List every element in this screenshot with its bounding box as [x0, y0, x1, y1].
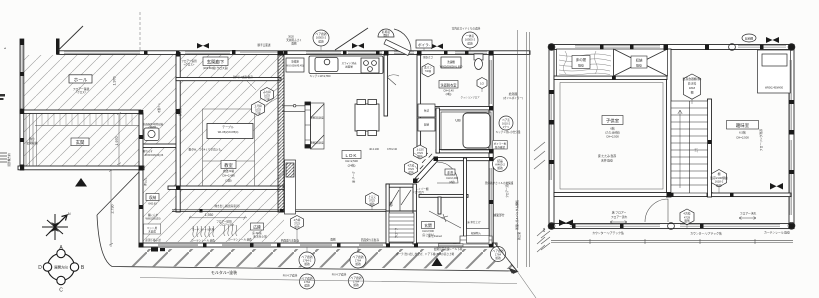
window thin double-lines on walls [21, 45, 492, 246]
svg-text:脱衣カゴ: 脱衣カゴ [423, 55, 433, 59]
LDK label [342, 151, 361, 168]
classroom east thick wall [278, 54, 284, 212]
svg-text:1,970: 1,970 [115, 137, 119, 146]
svg-text:1,930: 1,930 [205, 213, 214, 217]
svg-text:上と杉: 上と杉 [416, 148, 424, 152]
genkan step platform [460, 236, 492, 244]
compass [43, 249, 78, 284]
LDK / washroom wall [384, 54, 388, 116]
svg-text:玄関: 玄関 [76, 139, 85, 146]
svg-text:CH=2,40: CH=2,40 [443, 89, 454, 93]
svg-text:3020: 3020 [288, 35, 294, 39]
svg-text:CH=2,500: CH=2,500 [606, 135, 619, 139]
svg-text:面側: 面側 [330, 238, 336, 242]
svg-text:0723: 0723 [408, 167, 414, 171]
svg-text:洗パン: 洗パン [424, 66, 432, 70]
svg-text:押入れ: 押入れ [144, 178, 148, 186]
svg-text:カウンター:リアテック貼: カウンター:リアテック貼 [690, 231, 722, 235]
svg-text:境界線方向: 境界線方向 [7, 153, 11, 166]
svg-text:ドア?引戸: ドア?引戸 [412, 191, 424, 195]
svg-text:床:チーク: 床:チーク [352, 171, 356, 183]
svg-text:面材: 面材 [383, 34, 389, 38]
svg-text:(2段): (2段) [225, 179, 231, 183]
svg-text:既存食器棚(移): 既存食器棚(移) [683, 77, 702, 81]
joint circles [548, 44, 795, 230]
svg-text:CH=2,500: CH=2,500 [736, 135, 749, 139]
svg-text:ROW:D45(16),66: ROW:D45(16),66 [145, 154, 164, 157]
svg-text:玄関引戸高速レール下枠: 玄関引戸高速レール下枠 [434, 247, 463, 251]
svg-text:CH=2,500: CH=2,500 [422, 229, 434, 233]
dimension lines [109, 30, 529, 268]
svg-text:床:木仕上げ: 床:木仕上げ [467, 220, 481, 224]
spec circles bottom [299, 157, 508, 290]
genkan stub wall [438, 197, 441, 214]
svg-text:冷蔵庫: 冷蔵庫 [291, 60, 299, 64]
hall bottom wall [20, 110, 141, 113]
svg-text:新土間: 新土間 [517, 232, 521, 240]
right plan hexagons [680, 74, 727, 225]
left wall [20, 39, 24, 170]
svg-text:勝手口面談: 勝手口面談 [258, 43, 271, 47]
svg-text:6H2.60: 6H2.60 [148, 202, 157, 206]
inner walls [667, 49, 672, 197]
svg-text:廊下んす: 廊下んす [143, 149, 153, 153]
svg-text:収納棚: 収納棚 [745, 37, 754, 41]
book cabinet [305, 102, 311, 148]
north star [42, 214, 68, 240]
svg-text:テーブル: テーブル [222, 124, 234, 129]
svg-text:CH=2,400: CH=2,400 [446, 176, 458, 180]
svg-text:0723: 0723 [369, 198, 375, 202]
svg-text:遮熱: 遮熱 [417, 154, 423, 158]
svg-text:収納物入: 収納物入 [471, 231, 482, 235]
bowtie window symbols [197, 43, 443, 49]
lower-left outer wall [139, 170, 143, 247]
svg-text:1,970: 1,970 [113, 77, 117, 86]
svg-text:遮熱: 遮熱 [495, 256, 501, 260]
stair block walls [386, 184, 416, 187]
svg-text:CH=2,500: CH=2,500 [345, 159, 358, 163]
svg-text:カーテンレール:廊魚: カーテンレール:廊魚 [228, 238, 252, 242]
svg-text:玄関廊下: 玄関廊下 [207, 59, 225, 66]
svg-text:広縁: 広縁 [253, 225, 261, 230]
svg-text:書棚2段固定: 書棚2段固定 [310, 116, 324, 120]
svg-text:趣味室: 趣味室 [736, 122, 750, 129]
svg-text:縁にんす: 縁にんす [148, 213, 159, 217]
svg-text:フロアー流れ: フロアー流れ [611, 215, 628, 219]
svg-text:面側: 面側 [291, 42, 297, 46]
svg-text:床張替: 床張替 [178, 108, 182, 116]
lower parallel eave line [551, 239, 793, 244]
svg-text:(2帖): (2帖) [446, 92, 452, 96]
svg-text:玄関収納: 玄関収納 [26, 141, 37, 145]
svg-text:教卓W、つり4くり空向上も。: 教卓W、つり4くり空向上も。 [188, 148, 223, 152]
svg-text:給湯器: 給湯器 [509, 92, 518, 96]
svg-text:遮熱: 遮熱 [304, 283, 310, 287]
svg-text:1633: 1633 [255, 107, 261, 111]
SW comb marks [541, 231, 550, 250]
eave diagonals [58, 26, 368, 51]
spec circles top with tiny text [313, 29, 478, 48]
svg-text:1610-2: 1610-2 [502, 121, 511, 125]
svg-text:4方枠: 4方枠 [294, 218, 301, 222]
svg-text:カーテンレール:廊魚: カーテンレール:廊魚 [191, 239, 215, 243]
svg-text:4方枠: 4方枠 [408, 164, 415, 168]
svg-text:遮熱: 遮熱 [467, 41, 473, 45]
diagonal wall at new genkan [413, 153, 438, 183]
svg-text:キッチン用~小仕分量: キッチン用~小仕分量 [496, 130, 521, 134]
svg-text:五号枠: 五号枠 [254, 104, 262, 108]
svg-text:ホール: ホール [74, 77, 88, 82]
svg-text:画面層: 画面層 [345, 65, 353, 69]
black triangles [75, 178, 87, 187]
svg-text:6.5帖: 6.5帖 [739, 131, 746, 135]
kitchen counter [309, 56, 383, 74]
svg-text:(203.66(帖):クロス張): (203.66(帖):クロス張) [203, 66, 228, 70]
svg-text:遮熱: 遮熱 [355, 262, 361, 266]
svg-text:1818: 1818 [689, 86, 696, 90]
shelf frame with braces [311, 103, 325, 149]
svg-text:0723: 0723 [417, 151, 423, 155]
svg-text:西面発り窓既存: 西面発り窓既存 [281, 239, 300, 243]
leader lines [247, 46, 494, 252]
bath tub [441, 112, 491, 150]
svg-text:40.2.100: 40.2.100 [369, 148, 379, 151]
svg-text:収納: 収納 [424, 123, 430, 127]
closet small rooms by stairs [386, 187, 416, 211]
svg-text:掃き出し先(既存家具): 掃き出し先(既存家具) [214, 204, 239, 208]
left edge small marks [0, 46, 7, 162]
svg-text:ボイラ-: ボイラ- [418, 42, 431, 47]
svg-text:床:たたみ 既存: 床:たたみ 既存 [598, 154, 617, 158]
svg-text:必須下格子訪: 必須下格子訪 [145, 238, 161, 242]
south wall [139, 243, 497, 247]
svg-text:<クロス>: <クロス> [184, 62, 195, 66]
classroom label [221, 161, 236, 183]
svg-text:教室: 教室 [224, 162, 233, 169]
svg-text:遮熱: 遮熱 [294, 225, 300, 229]
boiler box [416, 40, 432, 48]
hiroen south line [172, 210, 387, 212]
bench lines [282, 104, 305, 111]
classroom bottom wall [168, 186, 284, 189]
svg-text:CH=2.40: CH=2.40 [387, 148, 398, 151]
classroom table [207, 124, 253, 139]
tokonoma with grain [557, 49, 614, 76]
TV board [285, 160, 296, 214]
svg-text:フローリング既存: フローリング既存 [759, 129, 763, 152]
svg-text:スライド消去: スライド消去 [341, 61, 357, 65]
svg-text:D: D [38, 265, 42, 271]
svg-text:子供室: 子供室 [606, 118, 620, 125]
svg-text:カーテンレール:既存: カーテンレール:既存 [764, 231, 790, 235]
svg-text:天井囲ふさく: 天井囲ふさく [286, 38, 302, 42]
genkan east partition wall [464, 158, 467, 244]
svg-text:モルタル+塗装: モルタル+塗装 [211, 269, 237, 275]
svg-text:FIXペア遮熱: FIXペア遮熱 [283, 274, 298, 278]
genkan old label [71, 138, 89, 146]
svg-text:1クリ: 1クリ [503, 125, 510, 129]
svg-text:黒体先すさイルカ用保護: 黒体先すさイルカ用保護 [485, 181, 514, 185]
right plan bowties [559, 37, 783, 226]
desk bay window [758, 50, 791, 93]
genkan bottom wall [18, 166, 144, 170]
shunou label [144, 194, 162, 243]
dining table and chairs [355, 100, 379, 136]
spec hexagons left plan [252, 64, 488, 230]
svg-text:床:上framed: 床:上framed [428, 234, 442, 238]
washroom closets [418, 104, 435, 131]
door arc right plan corridor [645, 199, 668, 222]
svg-text:UB: UB [455, 119, 461, 123]
genkan upper band ticks [42, 114, 132, 125]
svg-text:カーテンレール先貼: カーテンレール先貼 [192, 227, 215, 231]
svg-text:3723: 3723 [294, 221, 300, 225]
new genkan label [422, 222, 435, 238]
svg-text:2,730: 2,730 [111, 205, 115, 214]
svg-text:カウンター:リアテック貼: カウンター:リアテック貼 [592, 231, 624, 235]
svg-text:フロアー汚れ: フロアー汚れ [220, 223, 235, 227]
right plan stairs [671, 101, 708, 193]
svg-text:内法J1帖: 内法J1帖 [223, 169, 235, 173]
bath west wall [436, 108, 439, 153]
svg-text:室内窓ガイドくりの遮熱: 室内窓ガイドくりの遮熱 [452, 27, 481, 31]
svg-text:戸廻: 戸廻 [255, 111, 261, 115]
svg-text:CH=2,490: CH=2,490 [222, 174, 235, 178]
svg-text:遮熱: 遮熱 [304, 262, 310, 266]
svg-text:手洗: 手洗 [447, 170, 454, 175]
svg-text:洗濯機: 洗濯機 [447, 60, 455, 64]
svg-text:(オイルボイラー): (オイルボイラー) [503, 96, 523, 100]
svg-text:LDK: LDK [346, 153, 358, 158]
svg-text:ポーチ:洗い出し仕上げ、ドア下格=500の高さ上場: ポーチ:洗い出し仕上げ、ドア下格=500の高さ上場 [396, 252, 455, 256]
genkan shoe closet stripes [26, 114, 37, 166]
svg-text:床の間: 床の間 [576, 57, 587, 62]
svg-text:展開方向: 展開方向 [54, 265, 68, 270]
wall posts left plan [20, 39, 494, 252]
svg-text:戸廻: 戸廻 [264, 97, 270, 101]
site boundary [97, 172, 536, 298]
oshiire X box [614, 49, 668, 76]
top wall [57, 51, 530, 55]
svg-text:台詰: 台詰 [424, 109, 430, 113]
svg-text:面刑: 面刑 [684, 219, 690, 223]
svg-text:W60/250(30): W60/250(30) [146, 216, 161, 220]
hiroen label [251, 223, 268, 238]
washing machine [441, 57, 461, 68]
terrace hatch strip along south [115, 249, 515, 269]
svg-text:棚: 棚 [691, 91, 694, 95]
svg-text:マ運トッ: マ運トッ [157, 102, 161, 113]
svg-text:新6号 4支路 既存: 新6号 4支路 既存 [233, 75, 253, 79]
demolition tick hatches between plans [534, 142, 545, 252]
svg-text:(24帖): (24帖) [348, 164, 356, 168]
svg-text:243: 243 [542, 227, 546, 232]
svg-text:収納: 収納 [389, 201, 393, 207]
svg-text:天井:既存: 天井:既存 [601, 159, 613, 163]
fridge [286, 58, 304, 72]
washbasin nook bottom wall [141, 144, 178, 148]
tearai label [445, 169, 458, 184]
svg-text:収納: 収納 [149, 195, 157, 200]
svg-text:天:木仕上貼: 天:木仕上貼 [253, 234, 267, 238]
svg-text:740角: 740角 [425, 69, 432, 73]
svg-text:洗面脱衣室: 洗面脱衣室 [441, 82, 457, 87]
svg-text:収納: 収納 [636, 58, 643, 63]
svg-text:遮熱: 遮熱 [353, 283, 359, 287]
svg-text:レイゾー棚: レイゾー棚 [416, 187, 429, 191]
svg-text:上り: 上り [694, 147, 698, 153]
svg-text:FIXペア遮熱: FIXペア遮熱 [332, 273, 347, 277]
kodomo room inner line [560, 83, 663, 190]
svg-text:床:AF張: 床:AF張 [252, 231, 262, 235]
right plan window double lines [550, 46, 792, 227]
svg-text:既存: 既存 [716, 183, 722, 187]
svg-text:C: C [59, 288, 63, 294]
door arc new genkan [437, 162, 458, 183]
svg-text:(2帖): (2帖) [449, 180, 455, 184]
east wall [489, 52, 493, 245]
svg-text:W605/D605/AL 690: W605/D605/AL 690 [440, 64, 463, 68]
svg-text:1O: 1O [480, 82, 485, 86]
svg-text:フロアー汚れ: フロアー汚れ [740, 212, 757, 216]
svg-text:クッションフロア: クッションフロア [460, 95, 480, 99]
entrance sliding door [439, 244, 464, 247]
corridor label [181, 57, 228, 70]
washroom / bath wall [421, 107, 493, 110]
toilet [474, 54, 483, 70]
svg-text:西面発り窓既存: 西面発り窓既存 [361, 238, 380, 242]
classroom west wall [176, 54, 180, 212]
svg-text:既存確認: 既存確認 [495, 145, 506, 149]
svg-text:クローク: クローク [394, 227, 398, 238]
door leaf top [384, 29, 411, 56]
classroom top wall [176, 78, 281, 81]
svg-text:W90/2,450/H50: W90/2,450/H50 [765, 86, 784, 90]
svg-text:白き枠: 白き枠 [688, 82, 697, 86]
hatched existing-building floor areas [24, 55, 284, 242]
svg-text:ベット用: ベット用 [147, 226, 158, 230]
entry door swing diagonal [429, 211, 461, 228]
svg-text:既存: 既存 [636, 63, 642, 68]
svg-text:新築+ガルバリウム鋼板: 新築+ガルバリウム鋼板 [515, 200, 519, 230]
svg-text:遮熱: 遮熱 [408, 170, 414, 174]
svg-text:ペア窓: ペア窓 [502, 118, 510, 122]
svg-text:木造成: 木造成 [148, 230, 156, 234]
washroom west wall [417, 54, 421, 152]
svg-text:書棚2段固定: 書棚2段固定 [310, 141, 324, 145]
svg-text:W450: W450 [150, 126, 157, 129]
svg-text:玄関: 玄関 [424, 223, 432, 228]
svg-text:フロアー張替: フロアー張替 [181, 59, 197, 63]
hall top wall at new genkan [436, 158, 493, 161]
entry closet [467, 229, 490, 244]
washroom label [439, 81, 458, 97]
svg-text:遮熱: 遮熱 [497, 166, 503, 170]
genkan inner step line [35, 125, 139, 127]
right plan posts [549, 45, 794, 229]
svg-text:上る元: 上る元 [368, 195, 376, 199]
svg-text:<クロス>: <クロス> [76, 90, 87, 94]
stairs left plan [389, 213, 414, 242]
hall label [69, 75, 92, 94]
svg-text:既存: 既存 [578, 63, 584, 68]
outer walls [549, 45, 794, 50]
svg-text:みち枠: みち枠 [263, 90, 271, 94]
svg-text:減築部分: 減築部分 [493, 213, 504, 217]
svg-text:W1.05(2)X3.85(4): W1.05(2)X3.85(4) [218, 130, 239, 134]
genkan washbasin [144, 128, 159, 141]
svg-text:W:0.600(45.45): W:0.600(45.45) [286, 65, 303, 68]
svg-text:1633: 1633 [264, 93, 270, 97]
svg-text:遮熱: 遮熱 [318, 39, 324, 43]
genkan right wall [139, 113, 143, 170]
bath bottom wall [436, 150, 493, 153]
svg-text:キッチンW=2,550: キッチンW=2,550 [310, 74, 331, 78]
svg-text:ボイラー框: ボイラー框 [494, 141, 507, 145]
